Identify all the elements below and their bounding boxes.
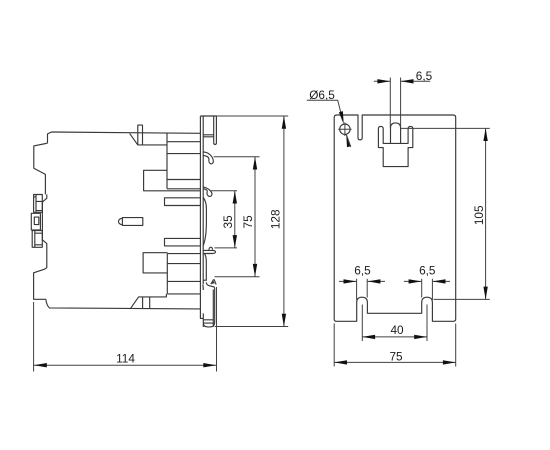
leader arrow hole bottom <box>346 134 351 147</box>
svg-text:40: 40 <box>390 323 404 337</box>
dim 35 arrows <box>233 191 237 204</box>
lower terminal block <box>167 254 200 294</box>
dim 128 line <box>283 116 285 327</box>
dim 35 line <box>234 191 236 248</box>
ext line claw2 35 <box>211 190 237 192</box>
mounting plate verticals <box>200 116 203 318</box>
ext line claw3 35 <box>215 247 238 249</box>
body edge behind DIN clip <box>34 194 201 309</box>
bottom feet details <box>130 294 166 309</box>
mounting hole <box>340 124 350 134</box>
arrows 6,5 bottom-left <box>344 279 357 283</box>
dim 6,5 bottom-left tails <box>339 280 385 282</box>
svg-text:6,5: 6,5 <box>354 264 371 278</box>
dim 6,5 top line left tail <box>374 80 390 82</box>
ext lines 6,5 bottom-left <box>357 279 368 300</box>
dim 75 line <box>254 157 256 277</box>
coil bar top <box>165 198 201 206</box>
finger arm <box>203 135 214 137</box>
svg-text:105: 105 <box>472 205 486 225</box>
leader tail bottom <box>346 134 351 147</box>
ext lines 6,5 bottom-right <box>422 279 433 300</box>
keyhole center hump <box>391 123 401 143</box>
body outline left profile <box>34 132 200 194</box>
upper wire opening rect <box>144 170 201 191</box>
svg-text:114: 114 <box>116 352 135 366</box>
DIN clip box2 <box>31 213 40 230</box>
top tab <box>138 125 143 145</box>
ext lines 6,5 top <box>390 78 400 129</box>
dim 6,5 bottom-right tails <box>404 280 450 282</box>
dim 114 line <box>34 364 216 366</box>
dim 75 bottom line <box>334 361 456 363</box>
dim 75 arrows <box>253 157 257 170</box>
svg-text:128: 128 <box>269 209 283 229</box>
upper terminal block <box>167 133 200 189</box>
ext line bottom 128 <box>215 326 289 328</box>
slot center ext lines <box>362 305 427 342</box>
dim 40 arrows <box>362 335 375 339</box>
plate top cap and finger <box>200 116 216 145</box>
svg-text:75: 75 <box>241 215 255 229</box>
ext line 114 right <box>216 287 218 372</box>
ext 105 bottom <box>434 298 490 300</box>
claw3 <box>203 247 216 281</box>
dim 105 line <box>485 128 487 299</box>
ext line claw1 75 <box>214 156 260 158</box>
claw1 <box>203 152 213 164</box>
ext 105 top <box>401 127 490 129</box>
dim 6,5 top arrow right <box>401 79 414 83</box>
spring lever <box>203 198 206 246</box>
arrows 6,5 bottom-right <box>409 279 422 283</box>
DIN clip box1 <box>34 195 43 213</box>
claw4 tooth <box>203 280 216 285</box>
claw2 <box>203 187 212 196</box>
dim 6,5 top arrow left <box>377 79 390 83</box>
svg-text:35: 35 <box>221 215 235 229</box>
dim 6,5 top line right tail <box>401 80 431 82</box>
svg-text:6,5: 6,5 <box>416 69 433 83</box>
top chamfer edge line <box>130 134 167 145</box>
screw side detail <box>119 218 143 226</box>
ext line top 128 <box>216 115 288 117</box>
dim 75 bottom arrows <box>334 360 347 364</box>
plate outline <box>334 115 456 321</box>
dim 128 arrows <box>282 116 286 129</box>
dim 105 arrows <box>483 128 487 141</box>
leader arrow into hole top <box>339 111 344 124</box>
coil bar bottom <box>165 238 201 246</box>
svg-text:75: 75 <box>389 349 403 363</box>
ext line 114 left <box>33 302 35 372</box>
leader underline <box>307 100 343 121</box>
dim 114 arrows <box>34 363 47 367</box>
hole crosshair <box>338 122 351 136</box>
dim 40 line <box>362 336 427 338</box>
lower wire opening rect <box>143 253 168 273</box>
DIN clip box3 <box>32 231 42 248</box>
svg-text:6,5: 6,5 <box>419 264 436 278</box>
ext lines 75 bottom <box>334 324 456 367</box>
plate foot <box>203 282 215 327</box>
ext line claw4 75 <box>215 276 260 278</box>
keyhole cutout <box>378 126 412 166</box>
